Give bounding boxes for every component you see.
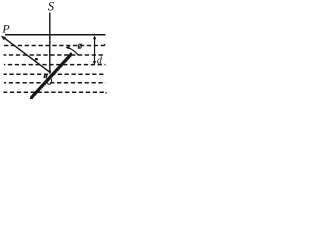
svg-text:S: S	[48, 0, 55, 14]
svg-text:P: P	[1, 21, 10, 35]
